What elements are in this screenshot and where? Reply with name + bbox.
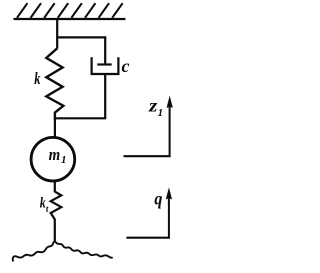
q axis: horizontal line	[126, 237, 170, 239]
wire: damper upper rod	[104, 37, 106, 64]
spring k	[46, 48, 63, 119]
spring kt	[51, 192, 62, 220]
q arrowhead	[166, 187, 172, 199]
svg-text:q: q	[154, 188, 162, 208]
ceiling hatch marks	[17, 3, 123, 18]
damper C cylinder	[92, 57, 119, 74]
svg-text:c: c	[122, 56, 130, 76]
svg-text:1: 1	[158, 107, 164, 119]
wire: connector to mass	[54, 118, 56, 137]
mass m1 circle	[31, 137, 75, 181]
wire: stem from ceiling	[56, 19, 58, 49]
svg-text:1: 1	[61, 154, 67, 166]
ground wavy surface	[13, 242, 113, 262]
wire: top T-bar	[56, 36, 106, 38]
svg-text:m: m	[49, 145, 61, 164]
svg-text:z: z	[148, 96, 158, 116]
wire: damper lower rod	[104, 74, 106, 118]
ceiling line	[14, 18, 126, 20]
svg-text:k: k	[34, 69, 41, 88]
q axis: vertical arrow shaft	[168, 195, 170, 238]
z1 axis: horizontal line	[124, 155, 171, 157]
wire: rod to ground	[54, 219, 56, 242]
wire: bottom bar joining spring and damper	[54, 117, 107, 119]
damper C piston	[97, 63, 111, 65]
wire: rod below mass	[54, 181, 56, 192]
z1 arrowhead	[167, 96, 173, 108]
z1 axis: vertical arrow shaft	[169, 103, 171, 156]
